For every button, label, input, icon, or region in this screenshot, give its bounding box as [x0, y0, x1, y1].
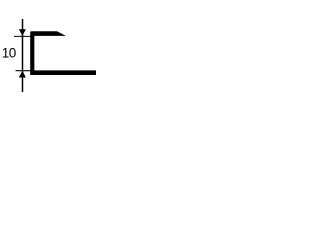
arrowhead down	[19, 29, 26, 36]
svg-text:10: 10	[2, 46, 16, 61]
profile body (J-trim cross-section: top flange with tapered lip, left web, long bottom flange)	[30, 31, 96, 75]
extension line bottom (inner face of bottom flange)	[16, 70, 33, 72]
extension line top (inner face of top flange)	[14, 35, 32, 37]
background	[0, 0, 96, 96]
dimension line (vertical)	[22, 19, 24, 92]
profile cross-section drawing with dimension	[0, 0, 96, 96]
arrowhead up	[19, 71, 26, 78]
